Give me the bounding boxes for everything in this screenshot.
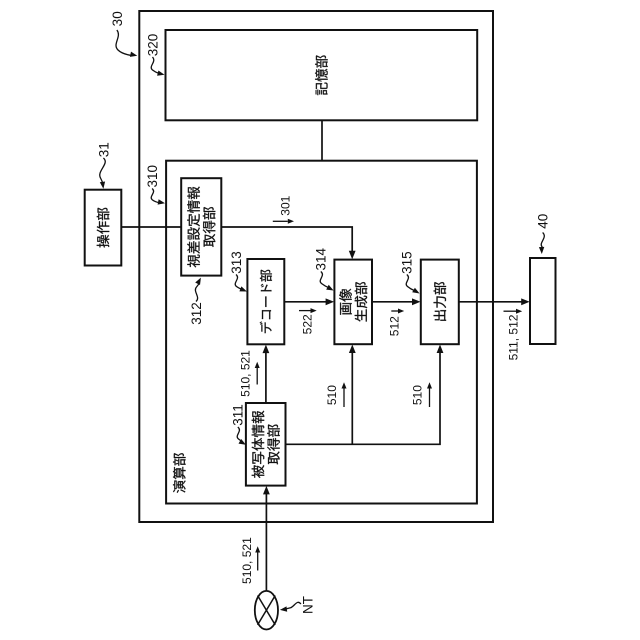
text デコード部 in box 313 — [260, 270, 272, 333]
text 被写体情報/取得部 in box 311 — [252, 411, 280, 478]
wire 313 to 314 (signal 522) — [284, 301, 326, 303]
svg-text:511, 512: 511, 512 — [506, 314, 520, 360]
leader 40 — [541, 233, 544, 250]
arrow of 512 — [391, 310, 398, 312]
box 320 storage (記憶部) — [166, 30, 478, 120]
wire 312 to 314 (signal 301) — [221, 227, 352, 252]
arrow of 510 right — [429, 389, 431, 408]
wire 315 to 40 (signals 511,512) — [459, 301, 522, 303]
svg-text:312: 312 — [189, 302, 204, 325]
svg-text:512: 512 — [388, 316, 402, 336]
text 記憶部 in box 320 — [315, 55, 328, 95]
svg-text:301: 301 — [279, 195, 293, 215]
antenna NT symbol — [255, 591, 278, 630]
leader 31 — [100, 158, 106, 183]
svg-text:40: 40 — [536, 214, 551, 229]
svg-text:313: 313 — [229, 251, 244, 274]
leader 310 — [151, 189, 159, 203]
antenna cross stroke 2 — [258, 596, 276, 625]
svg-text:510, 521: 510, 521 — [240, 537, 254, 584]
box 313 decoder (デコード部) — [247, 259, 284, 344]
wire 311 to 313 (signals 510,521) — [265, 353, 267, 403]
svg-text:522: 522 — [300, 314, 314, 334]
text 演算部 in box 310 — [173, 453, 186, 493]
svg-text:311: 311 — [231, 404, 246, 426]
arrow of 510, 521 bottom — [257, 553, 259, 571]
box 311 subject info acquisition — [246, 403, 286, 486]
svg-text:510: 510 — [411, 385, 425, 405]
wire 320 to 310 — [321, 120, 323, 160]
svg-text:31: 31 — [96, 142, 111, 157]
svg-text:510: 510 — [325, 385, 339, 405]
text 視差設定情報/取得部 in box 312 — [187, 186, 215, 267]
arrow of 301 — [273, 220, 288, 222]
leader 30 — [116, 30, 130, 55]
wire 311 to 315 (signal 510) — [286, 353, 441, 445]
wire branch 311 to 314 (signal 510) — [351, 353, 353, 445]
leader 312 — [195, 283, 199, 301]
leader 315 — [406, 275, 414, 291]
wire NT antenna to 311 (signals 510,521) — [265, 494, 267, 591]
box 314 image generation (画像生成部) — [334, 260, 372, 345]
svg-text:310: 310 — [145, 165, 160, 188]
text 操作部 in box 31 — [97, 208, 110, 248]
text 出力部 in box 315 — [434, 282, 447, 321]
wire 314 to 315 (signal 512) — [372, 301, 413, 303]
svg-text:510, 521: 510, 521 — [239, 350, 253, 397]
leader 313 — [235, 275, 243, 291]
svg-text:30: 30 — [110, 11, 125, 26]
leader NT — [286, 602, 301, 609]
box 310 arithmetic unit (演算部) — [166, 161, 477, 504]
box 31 operation unit (操作部) — [85, 190, 122, 266]
arrow of 522 — [299, 310, 311, 312]
leader 320 — [151, 57, 159, 74]
svg-text:320: 320 — [145, 34, 160, 57]
text 画像/生成部 in box 314 — [339, 282, 367, 322]
arrow of 511, 512 — [504, 310, 517, 312]
box 315 output unit (出力部) — [421, 260, 459, 345]
wire 31 to 312 — [121, 226, 181, 228]
box 40 display device — [530, 258, 556, 344]
svg-text:NT: NT — [300, 596, 315, 614]
arrow of 510, 521 middle — [256, 368, 258, 385]
box 312 parallax setting info acquisition — [181, 178, 221, 275]
leader 311 — [237, 427, 243, 442]
antenna cross stroke 1 — [258, 596, 276, 625]
box 30 outer (image processing device) — [139, 11, 493, 522]
svg-text:314: 314 — [314, 247, 329, 270]
svg-text:315: 315 — [400, 251, 415, 274]
leader 314 — [320, 272, 329, 288]
arrow of 510 left — [343, 389, 345, 408]
